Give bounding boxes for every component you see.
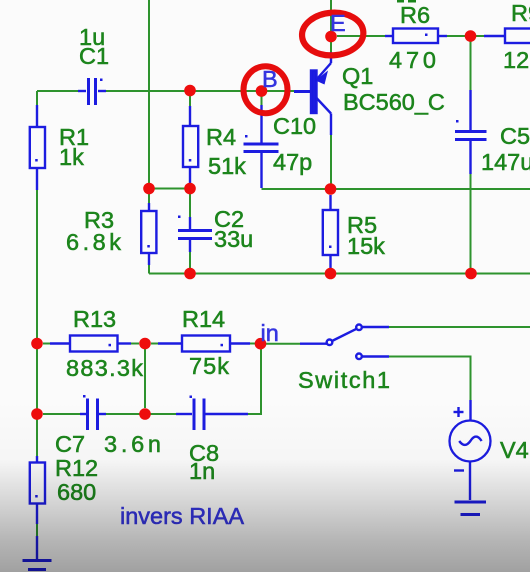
svg-text:R14: R14 bbox=[182, 306, 225, 332]
svg-text:470: 470 bbox=[389, 47, 436, 73]
svg-text:75k: 75k bbox=[189, 353, 229, 379]
svg-text:BC560_C: BC560_C bbox=[343, 89, 445, 115]
svg-text:6.8k: 6.8k bbox=[66, 229, 121, 255]
svg-text:C10: C10 bbox=[273, 113, 316, 139]
svg-text:147u: 147u bbox=[481, 149, 530, 175]
svg-text:47p: 47p bbox=[273, 149, 312, 175]
svg-text:1k: 1k bbox=[59, 144, 84, 170]
svg-text:R9: R9 bbox=[511, 0, 530, 26]
svg-text:R13: R13 bbox=[73, 306, 116, 332]
svg-text:R6: R6 bbox=[400, 2, 430, 28]
svg-text:33u: 33u bbox=[214, 226, 253, 252]
svg-text:in: in bbox=[261, 320, 279, 346]
svg-text:Q1: Q1 bbox=[342, 63, 373, 89]
svg-text:C1: C1 bbox=[79, 43, 109, 69]
svg-text:883.3k: 883.3k bbox=[66, 355, 143, 381]
svg-text:E: E bbox=[330, 10, 346, 36]
svg-text:B: B bbox=[262, 66, 278, 92]
svg-text:15k: 15k bbox=[347, 233, 385, 259]
svg-text:R4: R4 bbox=[206, 124, 236, 150]
svg-text:C5: C5 bbox=[500, 123, 530, 149]
svg-text:12: 12 bbox=[503, 47, 529, 73]
svg-text:Switch1: Switch1 bbox=[298, 367, 390, 393]
svg-text:51k: 51k bbox=[208, 153, 246, 179]
